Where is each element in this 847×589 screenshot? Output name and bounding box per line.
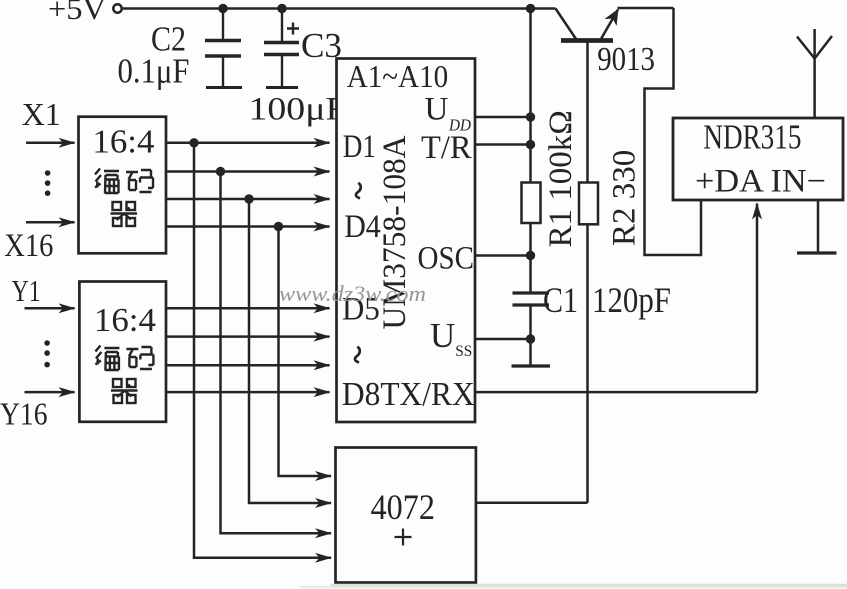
wire +5V top rail — [122, 7, 556, 10]
svg-text:0.1μF: 0.1μF — [118, 52, 190, 91]
wire OSC pin stub — [475, 254, 531, 257]
resistor R1 body — [522, 183, 541, 224]
wire D6 from Y encoder — [166, 335, 330, 338]
svg-text:X1: X1 — [22, 96, 61, 132]
svg-text:Y16: Y16 — [0, 396, 48, 432]
input arrow X16 — [26, 221, 75, 224]
wire UDD pin stub — [475, 116, 531, 119]
encoder Y label CJK bianma — [95, 346, 153, 404]
junction on rail above C2 — [218, 4, 227, 13]
transistor Q1 9013 — [556, 9, 619, 41]
svg-text:www.dz3w.com: www.dz3w.com — [279, 281, 426, 306]
junction on D4 line — [274, 222, 283, 231]
svg-text:16:4: 16:4 — [94, 302, 156, 339]
wire D5 from Y encoder — [166, 307, 330, 310]
OR gate U2 4072 body — [336, 448, 476, 583]
svg-text:C1: C1 — [543, 280, 578, 320]
IC U1 UM3758-108A body — [337, 59, 476, 423]
wire D3 from X encoder — [166, 198, 330, 201]
junction on D1 line — [189, 138, 198, 147]
IC tilde between D1 and D4 — [356, 183, 361, 199]
svg-text:A1~A10: A1~A10 — [347, 58, 449, 94]
junction T/R node — [526, 140, 535, 149]
junction UDD node — [526, 112, 535, 121]
wire branch D4 to OR gate input 1 — [279, 227, 332, 477]
wire branch D1 to OR gate input 4 — [194, 143, 331, 558]
svg-text:U: U — [430, 316, 455, 355]
wire D1 from X encoder — [166, 142, 330, 145]
svg-text:Y1: Y1 — [12, 273, 41, 308]
wire C1 bottom to ground — [529, 305, 532, 366]
input arrow Y16 — [25, 391, 75, 394]
junction on rail above C3 — [277, 4, 286, 13]
capacitor C1 plates — [513, 293, 550, 305]
svg-text:X16: X16 — [4, 228, 53, 264]
encoder block X (16:4) — [79, 117, 167, 254]
svg-text:D4: D4 — [344, 209, 381, 245]
svg-text:SS: SS — [455, 343, 472, 360]
svg-text:U: U — [425, 91, 449, 127]
wire NDR315 minus to ground — [817, 200, 820, 253]
4072 plus label — [395, 529, 412, 546]
encoder block Y (16:4) — [79, 282, 166, 422]
wire Q1 base down to R2 — [586, 41, 589, 183]
input arrow X1 — [26, 142, 75, 145]
svg-text:D8TX/RX: D8TX/RX — [342, 376, 475, 413]
capacitor C2 — [205, 9, 242, 88]
svg-text:16:4: 16:4 — [92, 124, 154, 161]
junction OSC node — [526, 251, 535, 260]
ellipsis Y inputs — [44, 340, 50, 367]
power terminal +5V — [48, 0, 122, 26]
svg-text:100μF: 100μF — [249, 92, 347, 128]
wire D7 from Y encoder — [166, 364, 330, 367]
svg-text:120pF: 120pF — [592, 280, 671, 320]
wire branch D2 to OR gate input 3 — [221, 172, 332, 534]
junction on rail above R1 line — [526, 4, 535, 13]
bottom scan shadow — [330, 584, 847, 586]
svg-text:4072: 4072 — [371, 487, 435, 527]
wire D2 from X encoder — [166, 170, 330, 173]
junction on D3 line — [244, 194, 253, 203]
wire emitter to corner — [618, 7, 674, 10]
wire OR gate output — [476, 502, 588, 505]
encoder X label CJK bianma — [95, 169, 153, 227]
wire T/R pin stub — [475, 143, 531, 146]
capacitor C3 (electrolytic) — [264, 9, 299, 88]
wire R2 bottom down to OR output — [586, 224, 589, 503]
wire USS pin stub — [475, 338, 531, 341]
wire R1 bottom to C1 — [529, 223, 532, 293]
wire DA IN arrow up — [756, 204, 759, 393]
wire TX/RX pin to DA IN — [475, 391, 757, 394]
wire emitter zigzag to NDR315 plus — [645, 8, 702, 255]
ellipsis X inputs — [45, 170, 51, 196]
wire branch D3 to OR gate input 2 — [249, 199, 331, 503]
input arrow Y1 — [25, 307, 75, 310]
junction USS node — [526, 334, 535, 343]
antenna — [797, 29, 832, 118]
wire D8 from Y encoder — [166, 391, 330, 394]
svg-text:+DA IN−: +DA IN− — [695, 164, 826, 200]
C3 polarity plus — [287, 23, 299, 35]
svg-text:9013: 9013 — [597, 41, 655, 78]
ground under C1 — [512, 364, 551, 367]
ground under NDR315 — [797, 251, 837, 254]
IC tilde between D5 and D8 — [355, 347, 360, 363]
svg-text:T/R: T/R — [421, 130, 472, 166]
svg-text:NDR315: NDR315 — [703, 118, 801, 157]
svg-text:R1 100kΩ: R1 100kΩ — [543, 110, 579, 247]
module NDR315 body — [673, 118, 843, 200]
junction on D2 line — [216, 167, 225, 176]
svg-text:D1: D1 — [343, 129, 376, 165]
resistor R2 body — [579, 183, 598, 225]
wire D4 from X encoder — [166, 225, 330, 228]
wire R1 branch from rail — [529, 9, 532, 183]
svg-text:+5V: +5V — [48, 0, 107, 26]
svg-text:R2 330: R2 330 — [607, 150, 643, 246]
svg-text:OSC: OSC — [418, 241, 475, 277]
